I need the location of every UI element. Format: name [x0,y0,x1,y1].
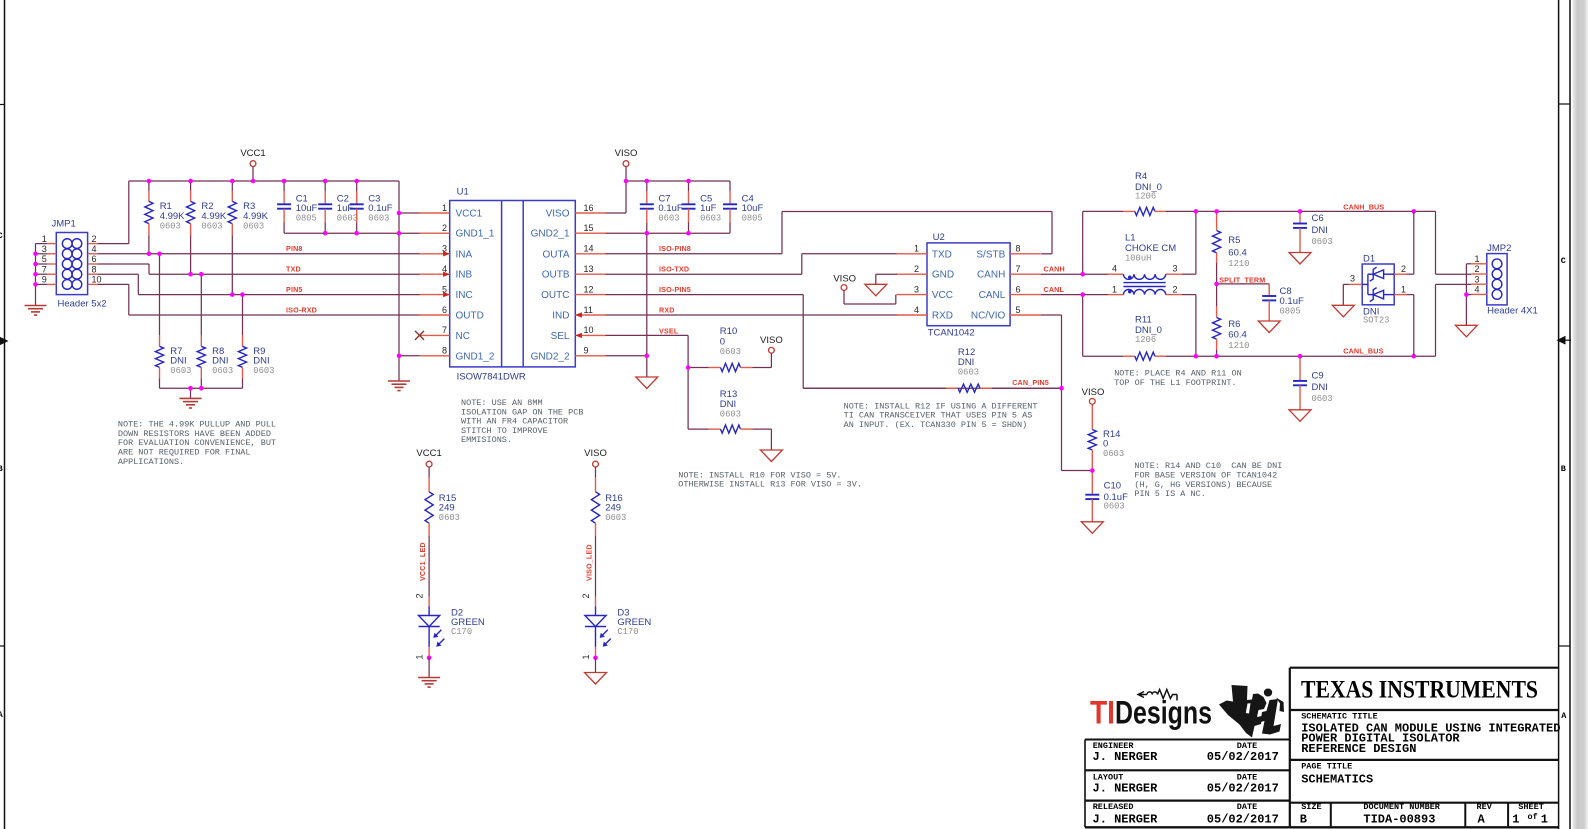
resistor R6 [1213,284,1250,356]
svg-text:Designs: Designs [1115,695,1212,731]
svg-text:0805: 0805 [296,214,317,224]
wire net TXD [149,273,420,275]
svg-text:0603: 0603 [605,513,626,523]
svg-text:CANH: CANH [1044,264,1065,273]
svg-text:J. NERGER: J. NERGER [1093,812,1159,826]
sheet border right inner [1558,0,1560,829]
svg-text:VISO: VISO [833,273,856,284]
svg-text:9: 9 [584,346,589,356]
junction VSEL dot [686,365,691,370]
svg-text:15: 15 [584,223,594,233]
svg-text:6: 6 [92,254,97,264]
svg-text:0603: 0603 [1104,501,1125,511]
svg-text:INB: INB [456,270,473,281]
svg-text:3: 3 [1474,274,1479,284]
ground GND2 triangle [636,377,658,389]
svg-text:GND2_2: GND2_2 [531,351,570,362]
svg-text:12: 12 [584,284,594,294]
junction D2 cathode [427,656,432,661]
svg-text:0603: 0603 [700,214,721,224]
svg-text:0603: 0603 [1312,394,1333,404]
svg-text:REV: REV [1477,802,1493,812]
svg-text:10: 10 [92,275,102,285]
sheet center arrow left [0,337,9,346]
svg-text:TXD: TXD [932,249,952,260]
svg-text:C6: C6 [1312,213,1324,224]
svg-text:DNI: DNI [1312,382,1328,393]
svg-text:R5: R5 [1228,235,1240,246]
svg-text:05/02/2017: 05/02/2017 [1207,781,1279,795]
ground D3 triangle [595,658,597,673]
power VCC1 [240,148,265,181]
svg-text:0603: 0603 [337,214,358,224]
svg-text:05/02/2017: 05/02/2017 [1207,812,1279,826]
sheet center arrow right [1557,336,1566,345]
svg-text:11: 11 [584,305,593,315]
svg-text:0603: 0603 [243,221,264,231]
wire CAN_PIN5 to R14 node [1061,388,1063,470]
svg-text:4.99K: 4.99K [160,211,185,222]
svg-text:OUTB: OUTB [542,270,570,281]
junction bus bottom [1194,354,1199,359]
svg-text:10uF: 10uF [296,203,318,214]
svg-text:IND: IND [552,311,569,322]
ground D1 pin3 [1343,283,1349,285]
svg-text:B: B [1300,812,1307,826]
wire CANH_BUS top [1083,210,1124,212]
svg-text:1206: 1206 [1135,335,1156,345]
junction split term [1214,282,1219,287]
resistor R16 [591,477,626,536]
svg-text:05/02/2017: 05/02/2017 [1207,750,1279,764]
wire net VSEL [606,334,689,336]
sheet border left [4,0,6,829]
svg-text:14: 14 [584,244,594,254]
svg-text:TIDA-00893: TIDA-00893 [1363,812,1435,826]
svg-text:ISO-PIN8: ISO-PIN8 [659,244,691,253]
wire CANL from U2 [1041,294,1083,296]
svg-text:CANH: CANH [977,270,1005,281]
wire D1 pin1 to CANL_BUS [1407,294,1414,296]
logo TI texas bug [1219,685,1284,738]
svg-text:DNI: DNI [1312,225,1328,236]
svg-text:VISO_LED: VISO_LED [585,544,594,581]
svg-text:SHEET: SHEET [1518,802,1544,812]
svg-text:4.99K: 4.99K [201,211,226,222]
svg-text:DNI: DNI [253,355,269,366]
svg-text:TXD: TXD [286,264,301,273]
capacitor C5 [682,181,722,233]
svg-text:0603: 0603 [253,366,274,376]
svg-text:3: 3 [1350,274,1355,284]
svg-text:0805: 0805 [742,214,763,224]
resistor R4 [1123,171,1165,216]
svg-text:JMP2: JMP2 [1487,243,1511,254]
svg-text:0603: 0603 [160,221,181,231]
resistor R11 [1123,315,1165,361]
svg-text:VCC: VCC [932,290,953,301]
LED D2 GREEN [419,606,485,647]
svg-text:0603: 0603 [212,366,233,376]
note text 1 [118,420,276,467]
svg-text:0.1uF: 0.1uF [1280,296,1304,307]
wire rail left drop to JMP1 pin2 [128,181,130,244]
note text 2 [461,398,583,445]
svg-text:A: A [1478,812,1486,826]
svg-text:CANL: CANL [1044,285,1065,294]
svg-text:4.99K: 4.99K [243,211,268,222]
ground JMP1 [25,306,47,316]
svg-text:VISO: VISO [760,335,783,346]
svg-text:INC: INC [456,290,473,301]
svg-text:L1: L1 [1125,233,1136,244]
svg-text:Header 4X1: Header 4X1 [1487,306,1538,317]
svg-text:1: 1 [1401,284,1406,294]
svg-text:6: 6 [442,305,447,315]
svg-text:13: 13 [584,264,594,274]
svg-text:4: 4 [914,305,919,315]
connector JMP2 [1471,243,1538,316]
svg-text:ISO-RXD: ISO-RXD [286,306,317,315]
svg-text:OTHERWISE INSTALL R13 FOR VISO: OTHERWISE INSTALL R13 FOR VISO = 3V. [678,480,862,490]
svg-text:1: 1 [1474,254,1479,264]
svg-text:VSEL: VSEL [659,327,679,336]
wire CANL_BUS to JMP2 pin3 [1435,284,1437,356]
note text 6 [1134,461,1282,499]
wire cap bottom GND1 line [284,232,399,234]
svg-text:0603: 0603 [170,366,191,376]
svg-text:APPLICATIONS.: APPLICATIONS. [118,457,184,467]
logo TIDesigns [1090,690,1212,731]
capacitor C3 [350,181,393,233]
wire R16 to D3 [595,536,597,597]
svg-text:4: 4 [1112,263,1117,273]
svg-text:SIZE: SIZE [1301,802,1321,812]
wire CANH_BUS to JMP2 pin2 [1435,211,1437,274]
svg-text:1206: 1206 [1135,192,1156,202]
svg-text:2: 2 [581,593,591,598]
svg-text:1: 1 [442,203,447,213]
connector JMP1 [42,219,107,310]
svg-text:GND1_1: GND1_1 [456,229,495,240]
capacitor C4 [723,181,763,233]
svg-text:VCC1_LED: VCC1_LED [418,542,427,581]
title block main [1290,668,1561,828]
resistor R5 [1213,211,1250,284]
svg-text:C170: C170 [617,627,638,637]
svg-text:2: 2 [1173,284,1178,294]
svg-text:GND: GND [932,270,954,281]
capacitor C9 [1289,356,1333,421]
svg-text:C10: C10 [1104,481,1121,492]
capacitor C1 [277,181,317,233]
wire JMP1 pin8 step to PIN5 [98,273,139,275]
resistor R15 [425,477,460,536]
svg-text:8: 8 [92,264,97,274]
wire JMP2 pin1 pin4 gnd [1466,263,1471,265]
capacitor C7 [640,181,683,233]
svg-text:2: 2 [914,264,919,274]
svg-text:7: 7 [442,325,447,335]
wire net PIN8 [98,253,420,255]
svg-text:OUTD: OUTD [456,311,484,322]
svg-text:10: 10 [584,325,594,335]
svg-text:GND2_1: GND2_1 [531,229,570,240]
wire R7-R9 bottom gnd line [160,387,243,389]
resistor R2 [187,181,227,274]
svg-text:4: 4 [1474,285,1479,295]
wire pin9 GND2_2 [606,355,647,357]
svg-text:DATE: DATE [1237,802,1257,812]
svg-text:PAGE TITLE: PAGE TITLE [1301,761,1352,771]
svg-text:VCC1: VCC1 [456,209,483,220]
capacitor C6 [1289,211,1333,264]
svg-text:SCHEMATIC TITLE: SCHEMATIC TITLE [1301,711,1378,721]
svg-text:8: 8 [1016,244,1021,254]
svg-text:PIN8: PIN8 [286,244,303,253]
svg-text:0603: 0603 [201,221,222,231]
svg-text:INA: INA [456,249,473,260]
svg-text:EMMISIONS.: EMMISIONS. [461,435,512,445]
wire VISO rail [626,180,730,182]
svg-text:DNI: DNI [212,355,228,366]
resistor R12 [803,347,1061,392]
svg-text:5: 5 [1016,305,1021,315]
ground GND1 [388,381,410,391]
svg-text:7: 7 [1016,264,1021,274]
svg-text:0.1uF: 0.1uF [368,203,392,214]
svg-text:AN INPUT. (EX. TCAN330 PIN 5 =: AN INPUT. (EX. TCAN330 PIN 5 = SHDN) [844,420,1028,430]
note text 3 [678,470,862,489]
svg-text:REFERENCE DESIGN: REFERENCE DESIGN [1301,742,1416,756]
transistor U2 TCAN1042 [896,232,1040,338]
junction R14 C10 [1090,468,1095,473]
ground U2 GND triangle [876,273,897,275]
sheet border right outer [1569,0,1571,829]
svg-text:TOP OF THE L1 FOOTPRINT.: TOP OF THE L1 FOOTPRINT. [1114,378,1236,388]
junction dots left section [147,179,152,184]
svg-text:0603: 0603 [439,513,460,523]
svg-text:R4: R4 [1135,171,1147,182]
svg-text:of: of [1528,812,1538,822]
svg-text:ISO-TXD: ISO-TXD [659,264,689,273]
svg-text:1210: 1210 [1228,341,1249,351]
svg-text:DOCUMENT NUMBER: DOCUMENT NUMBER [1363,802,1440,812]
svg-text:PIN 5 IS A NC.: PIN 5 IS A NC. [1134,489,1205,499]
svg-text:1: 1 [1512,812,1519,826]
svg-text:C: C [1561,256,1566,266]
svg-text:VISO: VISO [584,448,607,459]
resistor R14 [1088,404,1124,470]
svg-text:RELEASED: RELEASED [1093,802,1134,812]
svg-text:RXD: RXD [659,306,675,315]
resistor R7 [155,254,191,388]
svg-text:249: 249 [439,503,455,514]
svg-text:VCC1: VCC1 [416,448,441,459]
junction CANH CANL [1080,272,1085,277]
svg-text:CANL_BUS: CANL_BUS [1343,346,1383,355]
svg-text:2: 2 [415,593,425,598]
svg-text:D1: D1 [1363,253,1375,264]
power VISO at U2 [833,273,895,304]
svg-text:60.4: 60.4 [1228,330,1247,341]
wire net ISO-RXD [129,314,420,316]
junction VISO rail dots [624,179,629,184]
note text 5 [1114,369,1242,388]
svg-text:2: 2 [1474,264,1479,274]
svg-text:7: 7 [42,264,47,274]
power VISO at R14 [1082,387,1105,404]
svg-text:Header 5x2: Header 5x2 [58,298,107,309]
capacitor C10 [1081,471,1128,534]
svg-text:5: 5 [42,254,47,264]
wire U1 pin1 net [399,212,420,214]
diode D1 TVS [1349,253,1407,325]
junction CAN_PIN5 [1059,386,1064,391]
title block engineer table [1085,740,1290,828]
wire net ISO-TXD [606,273,802,275]
svg-text:9: 9 [42,275,47,285]
svg-text:U1: U1 [457,186,469,197]
wire net ISO-PIN5 [606,294,804,296]
capacitor C8 [1217,284,1304,333]
svg-text:ISO-PIN5: ISO-PIN5 [659,285,691,294]
svg-text:OUTC: OUTC [541,290,569,301]
svg-text:0603: 0603 [1312,237,1333,247]
svg-text:2: 2 [1401,264,1406,274]
wire U1 pin8 net [399,355,420,357]
op-amp U1 ISOW7841DWR [415,186,606,382]
svg-text:1: 1 [42,234,47,244]
svg-text:J. NERGER: J. NERGER [1093,781,1159,795]
resistor R3 [228,181,268,295]
svg-text:C170: C170 [451,627,472,637]
svg-text:JMP1: JMP1 [52,219,76,230]
svg-text:1: 1 [581,654,591,659]
svg-text:NC: NC [456,331,470,342]
svg-text:C: C [0,231,3,241]
svg-text:0.1uF: 0.1uF [658,203,682,214]
svg-text:0603: 0603 [720,409,741,419]
wire JMP1 pin2 to rail [98,243,129,245]
svg-text:TEXAS INSTRUMENTS: TEXAS INSTRUMENTS [1301,677,1538,704]
svg-text:60.4: 60.4 [1228,247,1247,258]
wire VCC1 top rail [129,180,399,182]
wire net RXD [606,314,898,316]
wire U2 pin5 to CAN_PIN5 [1041,314,1062,316]
wire R15 to D2 [428,536,430,597]
svg-text:249: 249 [605,503,621,514]
note text 4 [844,401,1038,430]
junction bus top [1194,209,1199,214]
svg-text:ISOW7841DWR: ISOW7841DWR [457,371,526,382]
svg-text:3: 3 [1173,263,1178,273]
ground pulldown [180,398,202,408]
svg-text:16: 16 [584,203,594,213]
junction JMP1 pins 3 5 7 9 [33,252,38,257]
svg-text:2: 2 [92,234,97,244]
svg-text:TI: TI [1090,695,1115,731]
svg-text:U2: U2 [933,232,945,243]
svg-text:0603: 0603 [368,214,389,224]
svg-text:0805: 0805 [1280,306,1301,316]
svg-text:CHOKE CM: CHOKE CM [1125,243,1176,254]
svg-text:A: A [1561,711,1567,721]
svg-text:3: 3 [914,284,919,294]
svg-text:VISO: VISO [1082,387,1105,398]
svg-text:1: 1 [1541,812,1548,826]
power VISO LED branch [584,448,607,477]
svg-text:R10: R10 [720,326,737,337]
svg-text:2: 2 [442,223,447,233]
svg-text:CAN_PIN5: CAN_PIN5 [1012,378,1049,387]
svg-text:VISO: VISO [546,209,570,220]
zone ticks left [0,104,5,106]
junction D3 cathode [593,656,598,661]
resistor R10 [688,326,771,371]
svg-text:1: 1 [914,244,919,254]
power VISO at R10 [760,335,783,367]
power VCC1 LED branch [416,448,441,477]
wire VISO drop to pin16 [625,181,627,213]
wire U1 pin2 net [399,232,420,234]
svg-text:R11: R11 [1135,315,1152,326]
svg-text:NC/VIO: NC/VIO [971,311,1006,322]
svg-text:DNI: DNI [170,355,186,366]
resistor R1 [145,181,185,254]
svg-text:0603: 0603 [658,214,679,224]
svg-text:C9: C9 [1312,371,1324,382]
svg-text:0: 0 [720,337,725,348]
svg-text:1: 1 [415,654,425,659]
wire GND1 vertical [398,181,400,381]
wire net PIN5 [138,294,419,296]
resistor R13 [688,389,771,433]
svg-text:0603: 0603 [958,368,979,378]
resistor R9 [238,295,274,389]
resistor R8 [197,274,233,388]
wire JMP1 pin6 step to TXD [98,263,149,265]
LED D3 GREEN [585,606,651,647]
svg-text:SEL: SEL [551,331,570,342]
svg-text:SCHEMATICS: SCHEMATICS [1301,773,1373,787]
zone ticks right [1559,103,1570,105]
wire CANL_BUS bottom [1083,355,1124,357]
power VISO over U1 [615,148,638,181]
svg-text:VCC1: VCC1 [240,148,265,159]
svg-text:0603: 0603 [1103,449,1124,459]
svg-text:B: B [1561,464,1566,474]
inductor L1 choke [1083,211,1196,356]
svg-text:8: 8 [442,346,447,356]
wire CANH from U2 [1041,273,1083,275]
svg-text:1210: 1210 [1228,259,1249,269]
wire JMP1 left gnd bus [35,244,37,306]
svg-text:SPLIT_TERM: SPLIT_TERM [1219,275,1265,284]
svg-text:1uF: 1uF [700,203,717,214]
wire D1 pin2 to CANH_BUS [1407,273,1414,275]
svg-text:PIN5: PIN5 [286,285,303,294]
junction JMP2 pin4 [1464,292,1469,297]
svg-text:R6: R6 [1228,319,1240,330]
svg-text:0603: 0603 [720,347,741,357]
svg-text:SOT23: SOT23 [1363,315,1389,325]
svg-text:B: B [0,464,3,474]
wire net ISO-PIN8 [606,253,783,255]
svg-text:100uH: 100uH [1125,254,1151,264]
wire GND2 vertical [646,233,648,377]
svg-text:OUTA: OUTA [542,249,569,260]
